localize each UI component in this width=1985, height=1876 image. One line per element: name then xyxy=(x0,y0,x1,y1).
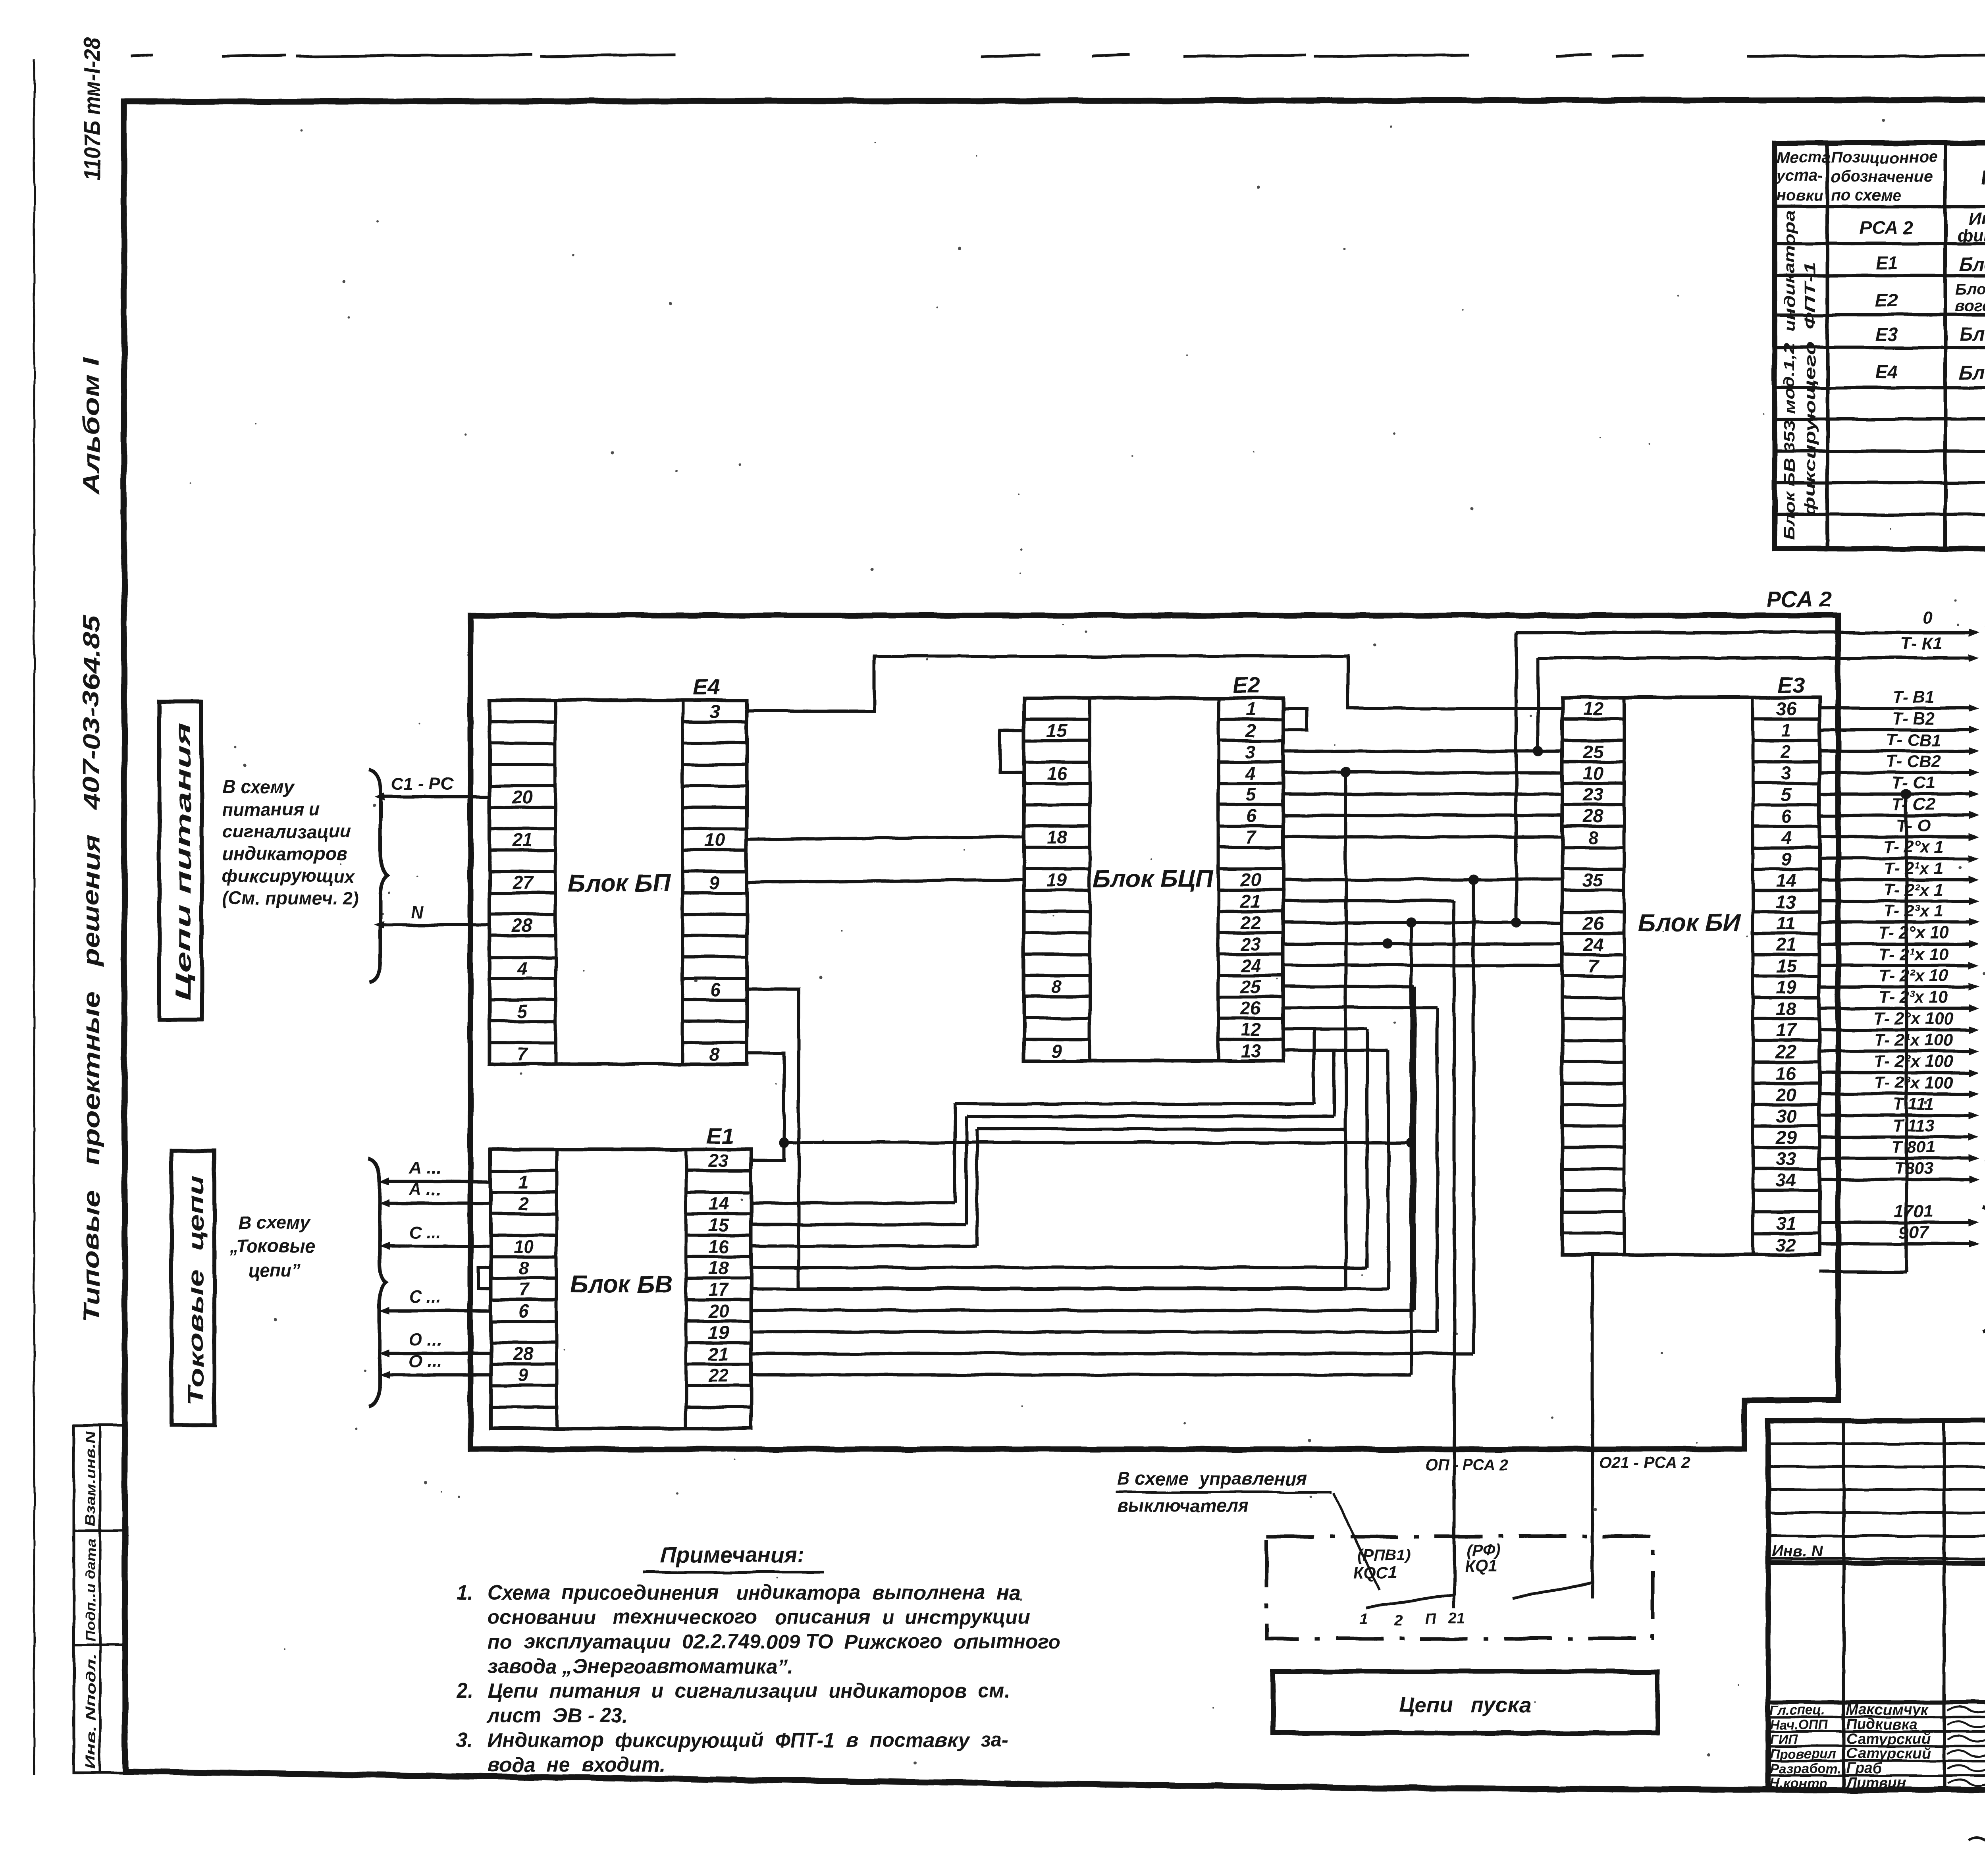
svg-text:17: 17 xyxy=(708,1279,730,1300)
svg-text:КQ1: КQ1 xyxy=(1465,1556,1497,1575)
wire output Т- 2²х 1 xyxy=(1819,900,1969,903)
svg-text:Т- СВ2: Т- СВ2 xyxy=(1886,752,1941,771)
svg-text:27: 27 xyxy=(512,872,534,893)
svg-text:28: 28 xyxy=(1582,806,1603,826)
node РСА2 boundary outline xyxy=(470,615,1838,1449)
svg-text:РСА 2: РСА 2 xyxy=(1860,218,1914,238)
svg-text:12: 12 xyxy=(1241,1019,1261,1040)
wire Е2.22 to БИ.26 xyxy=(1283,921,1562,924)
svg-text:10: 10 xyxy=(704,829,725,850)
box Токовые цепи xyxy=(172,1151,214,1425)
wire output Т- 2³х 100 xyxy=(1819,1092,1969,1095)
svg-text:20: 20 xyxy=(1240,870,1261,890)
wire Т-К1 output xyxy=(1538,656,1969,659)
title block upper mini rows xyxy=(1768,1442,1985,1445)
svg-text:2.: 2. xyxy=(456,1679,474,1702)
wire output Т- 2°х 10 xyxy=(1819,943,1969,946)
svg-text:Т- СВ1: Т- СВ1 xyxy=(1886,731,1941,750)
svg-text:Е4: Е4 xyxy=(693,675,720,700)
svg-text:14: 14 xyxy=(1776,870,1796,891)
wire output Т- СВ2 xyxy=(1819,771,1969,774)
svg-text:6: 6 xyxy=(709,979,720,1000)
block Блок БЦП pin ladder xyxy=(1024,718,1090,721)
svg-text:1107Б тм-I-28: 1107Б тм-I-28 xyxy=(79,37,105,181)
wire Т-С1 tap down xyxy=(1901,789,1912,799)
svg-text:20: 20 xyxy=(708,1301,729,1321)
wire Е1.16 riser xyxy=(751,1244,977,1247)
wire output Т803 xyxy=(1819,1178,1969,1181)
title block thick divider xyxy=(1768,1561,1985,1566)
svg-text:С1 - РС: С1 - РС xyxy=(391,774,454,793)
sheet top broken trim line xyxy=(131,55,153,56)
svg-text:8: 8 xyxy=(1588,827,1598,848)
svg-text:21: 21 xyxy=(1240,891,1261,912)
svg-text:С ...: С ... xyxy=(409,1222,441,1242)
wire Е4.9 to Е2.19 xyxy=(747,879,1024,882)
svg-text:Т- 2¹х 1: Т- 2¹х 1 xyxy=(1884,859,1944,878)
svg-text:23: 23 xyxy=(708,1150,729,1171)
contact KQ1 xyxy=(1591,1584,1594,1598)
svg-text:19: 19 xyxy=(708,1322,729,1343)
svg-text:4: 4 xyxy=(1781,827,1791,848)
svg-text:В схеме управления: В схеме управления xyxy=(1117,1468,1307,1489)
wire О21-РСА2 from БИ bottom xyxy=(1591,1255,1594,1584)
svg-text:РСА 2: РСА 2 xyxy=(1767,586,1832,611)
block Блок БП outline xyxy=(490,700,747,1064)
svg-text:14: 14 xyxy=(708,1193,728,1214)
wire Е1.15 riser xyxy=(751,1223,966,1226)
svg-text:4: 4 xyxy=(1245,763,1256,783)
title block lower grid xyxy=(1768,1700,1985,1704)
svg-text:Т- 2³х 10: Т- 2³х 10 xyxy=(1879,987,1948,1006)
svg-text:Т- 2³х 100: Т- 2³х 100 xyxy=(1874,1073,1953,1092)
riser V x3563 Е2.25 to Е1.20 xyxy=(1283,985,1415,988)
wire output Т- 2²х 10 xyxy=(1819,985,1969,988)
title block signature columns xyxy=(1842,1421,1845,1790)
svg-text:Т- 2°х 10: Т- 2°х 10 xyxy=(1878,924,1948,943)
wire output Т- С2 xyxy=(1819,814,1969,817)
svg-text:0: 0 xyxy=(1923,608,1933,627)
loop pins 1-2 of Е2 right xyxy=(1283,709,1307,730)
svg-text:28: 28 xyxy=(513,1344,534,1364)
wire output Т- 2¹х 1 xyxy=(1819,878,1969,881)
svg-text:А ...: А ... xyxy=(409,1158,441,1178)
svg-text:Блок БВ 353 мод.1,2 индикатор: Блок БВ 353 мод.1,2 индикатора xyxy=(1781,210,1798,540)
wire output Т- В2 xyxy=(1819,728,1969,731)
svg-text:Блок аналого-цифро-: Блок аналого-цифро- xyxy=(1955,281,1985,298)
svg-text:уста-: уста- xyxy=(1776,167,1823,184)
svg-text:Схема присоединения индикат: Схема присоединения индикатора выполнена… xyxy=(488,1581,1020,1604)
svg-text:9: 9 xyxy=(518,1365,529,1386)
svg-text:Максимчук: Максимчук xyxy=(1846,1701,1929,1718)
block Блок БВ outline xyxy=(491,1149,751,1429)
svg-text:35: 35 xyxy=(1583,870,1604,891)
svg-text:5: 5 xyxy=(517,1001,528,1022)
svg-text:10: 10 xyxy=(1583,763,1603,783)
svg-text:36: 36 xyxy=(1776,698,1796,719)
svg-text:907: 907 xyxy=(1899,1223,1929,1242)
svg-text:Проверил: Проверил xyxy=(1770,1747,1836,1762)
svg-text:Блок БИ: Блок БИ xyxy=(1638,909,1741,937)
svg-text:2: 2 xyxy=(1394,1613,1403,1629)
svg-text:основании технического опи: основании технического описания и инстру… xyxy=(488,1606,1030,1628)
svg-text:Т- К1: Т- К1 xyxy=(1900,634,1942,653)
svg-text:по схеме: по схеме xyxy=(1831,187,1901,204)
svg-text:3.: 3. xyxy=(457,1729,474,1751)
block Блок БИ outline xyxy=(1562,698,1819,1255)
wire output 1701 xyxy=(1819,1221,1969,1224)
svg-text:П: П xyxy=(1425,1611,1436,1627)
svg-text:10: 10 xyxy=(513,1236,534,1257)
svg-text:индикаторов: индикаторов xyxy=(222,843,347,864)
svg-text:новки: новки xyxy=(1777,187,1823,204)
block Блок БВ pin ladder xyxy=(491,1169,557,1172)
svg-text:19: 19 xyxy=(1046,870,1067,890)
svg-text:21: 21 xyxy=(1775,934,1796,955)
svg-text:24: 24 xyxy=(1582,934,1603,955)
svg-text:Типовые проектные решения: Типовые проектные решения 407-03-364.85 xyxy=(79,615,104,1322)
svg-text:Т 111: Т 111 xyxy=(1893,1095,1934,1114)
svg-text:Т- 2¹х 100: Т- 2¹х 100 xyxy=(1874,1030,1953,1049)
wire output Т 113 xyxy=(1819,1135,1969,1138)
svg-text:16: 16 xyxy=(1046,763,1067,783)
svg-text:О ...: О ... xyxy=(409,1352,442,1371)
svg-text:по эксплуатации 02.2.749.009: по эксплуатации 02.2.749.009 ТО Рижского… xyxy=(488,1630,1060,1653)
svg-text:сигнализации: сигнализации xyxy=(222,821,351,842)
svg-text:Блок БП: Блок БП xyxy=(568,870,671,897)
wire Е4.8 to Е1.23 net xyxy=(747,1053,784,1160)
svg-text:1: 1 xyxy=(1359,1611,1368,1627)
wire output Т- 2³х 1 xyxy=(1819,921,1969,924)
svg-text:Е3: Е3 xyxy=(1778,673,1805,698)
svg-text:Е4: Е4 xyxy=(1875,361,1898,382)
block Блок БИ pin ladder xyxy=(1562,717,1624,721)
svg-text:Е2: Е2 xyxy=(1875,290,1898,310)
svg-text:Инв. N: Инв. N xyxy=(1772,1542,1823,1560)
svg-text:Е1: Е1 xyxy=(706,1123,734,1148)
svg-text:23: 23 xyxy=(1240,933,1261,954)
svg-text:25: 25 xyxy=(1240,976,1262,997)
title block outline xyxy=(1768,1421,1985,1790)
svg-text:Т- В2: Т- В2 xyxy=(1892,709,1935,728)
svg-text:7: 7 xyxy=(1588,956,1599,976)
wire output Т- 2¹х 100 xyxy=(1819,1049,1969,1053)
svg-text:6: 6 xyxy=(1781,806,1791,826)
contact KQC1 xyxy=(1453,1595,1456,1608)
svg-text:8: 8 xyxy=(709,1043,720,1064)
svg-text:22: 22 xyxy=(1240,912,1261,933)
junction dots on bus xyxy=(1533,746,1543,756)
wire Е4.6 route xyxy=(747,989,1346,1288)
svg-text:вода не входит.: вода не входит. xyxy=(488,1753,665,1776)
svg-text:13: 13 xyxy=(1241,1040,1261,1061)
svg-text:Токовые цепи: Токовые цепи xyxy=(184,1175,208,1406)
svg-text:Т- 2²х 100: Т- 2²х 100 xyxy=(1874,1052,1953,1071)
svg-text:Т- 2¹х 10: Т- 2¹х 10 xyxy=(1879,945,1948,964)
wire Е1.14 riser xyxy=(751,1201,955,1205)
svg-text:20: 20 xyxy=(1775,1084,1796,1105)
svg-text:Пидкивка: Пидкивка xyxy=(1846,1716,1918,1733)
svg-text:22: 22 xyxy=(1775,1041,1796,1062)
svg-text:Т- 2°х 1: Т- 2°х 1 xyxy=(1883,838,1944,857)
svg-text:Е1: Е1 xyxy=(1875,253,1898,273)
svg-text:19: 19 xyxy=(1776,977,1796,998)
svg-text:О21 - РСА 2: О21 - РСА 2 xyxy=(1599,1454,1690,1472)
svg-text:1: 1 xyxy=(1246,699,1256,719)
svg-text:6: 6 xyxy=(1246,806,1256,826)
svg-text:8: 8 xyxy=(518,1258,529,1278)
svg-text:Е3: Е3 xyxy=(1875,324,1898,345)
svg-text:7: 7 xyxy=(517,1043,528,1064)
svg-text:3: 3 xyxy=(1246,742,1256,762)
svg-text:Места: Места xyxy=(1777,149,1831,166)
svg-text:Блок БЦП: Блок БЦП xyxy=(1093,866,1214,893)
svg-text:Т 113: Т 113 xyxy=(1892,1116,1935,1135)
box Цепи пуска xyxy=(1273,1672,1657,1733)
svg-text:5: 5 xyxy=(1781,784,1792,805)
svg-text:Цепи питания и сигнализации: Цепи питания и сигнализации индикаторов … xyxy=(488,1679,1010,1702)
wire output Т- В1 xyxy=(1819,707,1969,710)
svg-text:7: 7 xyxy=(1246,827,1257,848)
svg-text:Блок входной: Блок входной xyxy=(1959,254,1985,275)
svg-text:Разработ.: Разработ. xyxy=(1770,1761,1841,1776)
svg-text:Альбом I: Альбом I xyxy=(79,357,104,496)
svg-text:21: 21 xyxy=(1448,1610,1465,1627)
svg-text:9: 9 xyxy=(1781,848,1791,869)
svg-text:Т803: Т803 xyxy=(1894,1159,1933,1178)
wire output Т- О xyxy=(1819,835,1969,839)
svg-text:4: 4 xyxy=(517,958,528,979)
svg-text:2: 2 xyxy=(1245,720,1256,741)
svg-text:Позиционное: Позиционное xyxy=(1831,149,1937,166)
svg-text:1: 1 xyxy=(518,1172,529,1192)
svg-text:23: 23 xyxy=(1582,784,1603,805)
wire output Т 111 xyxy=(1819,1114,1969,1117)
sheet edge left xyxy=(33,60,35,1775)
svg-text:15: 15 xyxy=(708,1215,729,1236)
svg-text:34: 34 xyxy=(1776,1170,1796,1190)
wire 0 output xyxy=(1516,631,1969,634)
wire Е2.23 to БИ.24 xyxy=(1283,943,1562,946)
svg-text:15: 15 xyxy=(1776,956,1797,976)
svg-text:9: 9 xyxy=(709,872,720,893)
svg-text:18: 18 xyxy=(708,1258,729,1278)
svg-text:28: 28 xyxy=(512,915,533,936)
svg-text:16: 16 xyxy=(708,1236,729,1257)
riser V x3444 Е2.12 to Е1.18 xyxy=(1283,1027,1367,1030)
svg-text:11: 11 xyxy=(1777,913,1796,933)
wire Е4.10 to Е2.18 xyxy=(747,837,1024,839)
svg-text:Индикатор: Индикатор xyxy=(1969,209,1985,228)
svg-text:13: 13 xyxy=(1776,891,1796,912)
svg-text:Блок индикации: Блок индикации xyxy=(1959,324,1985,345)
wire Е2.24 to БИ.7 xyxy=(1283,964,1562,967)
svg-text:Т- С2: Т- С2 xyxy=(1892,795,1935,814)
svg-text:17: 17 xyxy=(1776,1020,1797,1041)
svg-text:33: 33 xyxy=(1776,1148,1796,1169)
riser V x3874 wire Т-К1 xyxy=(1536,658,1540,751)
svg-text:3: 3 xyxy=(709,701,720,722)
brace В схему питания xyxy=(1983,1207,1985,1332)
svg-text:обозначение: обозначение xyxy=(1831,168,1932,185)
svg-text:Граб: Граб xyxy=(1846,1760,1883,1777)
svg-text:Т- О: Т- О xyxy=(1896,816,1931,835)
riser V x3390 Е4.6 net xyxy=(1344,773,1347,1288)
svg-text:Н.контр: Н.контр xyxy=(1770,1776,1827,1791)
svg-text:Индикатор фиксирующий ФПТ-1: Индикатор фиксирующий ФПТ-1 в поставку з… xyxy=(488,1729,1009,1751)
svg-text:Т- 2³х 1: Т- 2³х 1 xyxy=(1884,902,1944,921)
wire output Т- С1 xyxy=(1819,792,1969,796)
svg-text:Т- С1: Т- С1 xyxy=(1892,773,1935,792)
svg-text:В схему: В схему xyxy=(238,1212,311,1233)
svg-text:Цепи питания: Цепи питания xyxy=(172,723,195,1001)
brace current circuits xyxy=(368,1159,386,1406)
svg-text:Т 801: Т 801 xyxy=(1892,1138,1935,1157)
svg-text:Т- 2²х 1: Т- 2²х 1 xyxy=(1884,881,1944,900)
svg-text:ОП - РСА 2: ОП - РСА 2 xyxy=(1425,1456,1509,1473)
margin stamp strip xyxy=(74,1425,126,1773)
svg-text:21: 21 xyxy=(708,1344,728,1364)
svg-text:9: 9 xyxy=(1052,1040,1062,1061)
riser V x3712 to Е1.21 xyxy=(1472,880,1475,1353)
svg-text:20: 20 xyxy=(512,787,533,808)
svg-text:24: 24 xyxy=(1240,955,1261,976)
riser V x3620 Е2.26 to Е1.19 xyxy=(1283,1006,1437,1009)
wire Е4.3 to БИ.12 xyxy=(747,656,1562,711)
svg-text:2: 2 xyxy=(518,1193,529,1214)
svg-text:1: 1 xyxy=(1781,720,1791,740)
svg-text:Гл.спец.: Гл.спец. xyxy=(1770,1702,1825,1718)
svg-text:цепи”: цепи” xyxy=(248,1260,301,1280)
svg-text:N: N xyxy=(411,902,424,922)
svg-text:завода „Энергоавтоматика”.: завода „Энергоавтоматика”. xyxy=(488,1655,794,1677)
svg-text:16: 16 xyxy=(1776,1063,1796,1084)
svg-text:Т- 2°х 100: Т- 2°х 100 xyxy=(1873,1009,1953,1028)
brace power circuits xyxy=(369,769,387,982)
wire output Т 801 xyxy=(1819,1157,1969,1160)
svg-text:Блок БВ: Блок БВ xyxy=(570,1271,673,1298)
svg-text:Цепи пуска: Цепи пуска xyxy=(1399,1693,1531,1717)
svg-text:С ...: С ... xyxy=(409,1287,441,1307)
starter dash-dot box xyxy=(1266,1537,1653,1639)
svg-text:Т- 2²х 10: Т- 2²х 10 xyxy=(1879,966,1948,985)
svg-text:15: 15 xyxy=(1046,720,1068,741)
wire output Т- СВ1 xyxy=(1819,750,1969,753)
loop pins 15-16 of Е2 left xyxy=(1000,730,1024,773)
svg-text:26: 26 xyxy=(1240,998,1261,1018)
svg-text:фиксирующих: фиксирующих xyxy=(222,866,356,886)
svg-text:Литвин: Литвин xyxy=(1845,1775,1906,1791)
svg-text:18: 18 xyxy=(1776,999,1796,1019)
svg-text:вого преобразования: вого преобразования xyxy=(1955,297,1985,315)
wire output Т- 2¹х 10 xyxy=(1819,964,1969,967)
bus Е2 to БИ straight wires xyxy=(1283,750,1562,753)
svg-text:25: 25 xyxy=(1582,741,1604,762)
wire С1-РС xyxy=(382,795,490,798)
svg-text:Наименование: Наименование xyxy=(1981,166,1985,189)
svg-text:30: 30 xyxy=(1776,1106,1796,1126)
wire output Т- 2²х 100 xyxy=(1819,1071,1969,1074)
svg-text:Инв. Nподл.: Инв. Nподл. xyxy=(83,1654,98,1769)
svg-text:А ...: А ... xyxy=(409,1180,441,1199)
svg-text:29: 29 xyxy=(1775,1127,1796,1147)
leader line xyxy=(1334,1493,1380,1590)
svg-text:7: 7 xyxy=(518,1279,530,1300)
signature squiggles xyxy=(1947,1705,1985,1712)
svg-text:лист ЭВ - 23.: лист ЭВ - 23. xyxy=(486,1704,628,1727)
svg-text:Блок питания: Блок питания xyxy=(1959,362,1985,384)
svg-text:„Токовые: „Токовые xyxy=(229,1236,315,1257)
svg-text:выключателя: выключателя xyxy=(1117,1495,1249,1516)
svg-text:18: 18 xyxy=(1046,827,1067,848)
svg-text:26: 26 xyxy=(1582,913,1603,933)
riser V x3555 to Е1.22 xyxy=(1410,923,1413,1375)
svg-text:Взам.инв.N: Взам.инв.N xyxy=(83,1431,98,1527)
wire output Т- 2°х 100 xyxy=(1819,1028,1969,1031)
svg-text:3: 3 xyxy=(1781,763,1791,783)
svg-text:ГИП: ГИП xyxy=(1770,1732,1798,1747)
svg-text:(См. примеч. 2): (См. примеч. 2) xyxy=(222,888,359,908)
svg-text:питания и: питания и xyxy=(222,799,320,819)
svg-text:фиксирующего ФПТ-1: фиксирующего ФПТ-1 xyxy=(1802,262,1819,516)
svg-text:Е2: Е2 xyxy=(1233,673,1260,698)
svg-text:Т- В1: Т- В1 xyxy=(1892,688,1935,707)
input wires А А С С О О xyxy=(387,1180,491,1183)
riser V x3819 wire 0 xyxy=(1515,632,1518,923)
wire net Е4.8 horizontal to V3555 xyxy=(784,1141,1411,1144)
svg-text:Сатурский: Сатурский xyxy=(1846,1731,1931,1747)
svg-text:Нач.ОПП: Нач.ОПП xyxy=(1770,1717,1829,1732)
svg-text:31: 31 xyxy=(1776,1213,1796,1233)
svg-text:1.: 1. xyxy=(457,1581,474,1604)
box Цепи питания xyxy=(159,702,202,1020)
svg-text:32: 32 xyxy=(1776,1234,1796,1255)
wire output Т- 2³х 10 xyxy=(1819,1006,1969,1010)
svg-text:21: 21 xyxy=(512,829,532,850)
block Блок БП pin ladder xyxy=(490,720,555,723)
block Блок БЦП outline xyxy=(1024,698,1283,1061)
loop pins 8-7 of Е1 xyxy=(478,1267,491,1289)
svg-text:В схему: В схему xyxy=(222,777,295,797)
wire N xyxy=(382,924,490,927)
svg-text:5: 5 xyxy=(1246,784,1257,805)
wire output Т- 2°х 1 xyxy=(1819,857,1969,860)
svg-text:12: 12 xyxy=(1583,698,1603,719)
svg-text:2: 2 xyxy=(1781,741,1791,762)
svg-text:8: 8 xyxy=(1052,976,1062,997)
svg-text:6: 6 xyxy=(518,1301,529,1321)
equipment table grid xyxy=(1775,143,1985,549)
svg-text:Сатурский: Сатурский xyxy=(1846,1745,1931,1762)
svg-text:фиксирующий: фиксирующий xyxy=(1957,226,1985,245)
svg-text:О ...: О ... xyxy=(409,1330,442,1350)
wire output 907 xyxy=(1819,1242,1969,1246)
svg-text:Подп..и дата: Подп..и дата xyxy=(83,1539,98,1642)
riser V x3663 Е2.21 to starter box ОП-РСА2 xyxy=(1283,899,1454,902)
riser V x3497 Е2.13 to Е1.17 xyxy=(1283,1049,1388,1052)
svg-text:Примечания:: Примечания: xyxy=(660,1542,804,1567)
svg-text:22: 22 xyxy=(708,1365,729,1386)
svg-text:1701: 1701 xyxy=(1894,1201,1933,1221)
